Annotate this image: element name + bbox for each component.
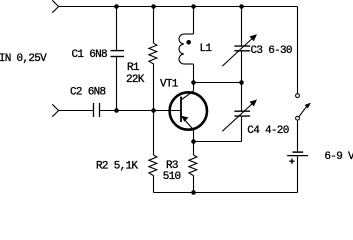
wire emitter to C4 bottom bbox=[194, 141, 242, 143]
label C1 6N8 bbox=[72, 49, 108, 61]
svg-text:L1: L1 bbox=[200, 43, 213, 55]
label C2 6N8 bbox=[70, 87, 106, 99]
label 510 bbox=[163, 171, 181, 183]
node dot C3-C4 junction bbox=[239, 80, 244, 85]
wire bottom rail bbox=[154, 192, 298, 194]
svg-text:510: 510 bbox=[163, 171, 181, 183]
svg-text:C3 6-30: C3 6-30 bbox=[251, 45, 292, 57]
node dot top C1 bbox=[114, 4, 119, 9]
node dot R1-R2-base junction bbox=[151, 108, 156, 113]
node dot C1-C2 junction bbox=[114, 108, 119, 113]
svg-text:C2 6N8: C2 6N8 bbox=[70, 87, 106, 99]
svg-text:C4 4-20: C4 4-20 bbox=[247, 125, 288, 137]
svg-text:R2 5,1K: R2 5,1K bbox=[96, 161, 138, 173]
capacitor C3 variable bbox=[222, 7, 257, 83]
L1 winding dot bbox=[186, 40, 191, 45]
label C3 6-30 bbox=[251, 45, 292, 57]
label C4 4-20 bbox=[247, 125, 288, 137]
resistor R2 bbox=[149, 111, 157, 193]
battery GB1 bbox=[287, 152, 308, 192]
label IN 0,25V bbox=[0, 53, 47, 65]
label R3 bbox=[166, 160, 178, 172]
transistor VT1 bbox=[170, 91, 207, 142]
label L1 bbox=[200, 43, 213, 55]
resistor R1 bbox=[149, 7, 157, 111]
svg-text:R1: R1 bbox=[127, 62, 140, 74]
switch SA1 bbox=[296, 7, 311, 152]
label VT1 bbox=[160, 79, 179, 91]
wire collector rail bbox=[194, 82, 242, 84]
node dot emitter junction bbox=[191, 139, 196, 144]
input terminal bottom bbox=[52, 104, 58, 116]
svg-text:C1 6N8: C1 6N8 bbox=[72, 49, 108, 61]
wire C2 to base bbox=[100, 110, 181, 112]
node dot top L1 bbox=[191, 4, 196, 9]
node dot collector junction bbox=[191, 80, 196, 85]
svg-text:22K: 22K bbox=[126, 74, 145, 86]
svg-text:VT1: VT1 bbox=[160, 79, 179, 91]
label R1 bbox=[127, 62, 140, 74]
capacitor C2 bbox=[94, 103, 100, 117]
capacitor C1 bbox=[111, 7, 125, 111]
node dot top C3 bbox=[239, 4, 244, 9]
node dot bottom R3 bbox=[191, 190, 196, 195]
svg-text:6-9 V: 6-9 V bbox=[324, 151, 353, 163]
wire input to C2 bbox=[59, 110, 93, 112]
wire top rail bbox=[59, 6, 298, 8]
node dot top R1 bbox=[151, 4, 156, 9]
label 22K bbox=[126, 74, 145, 86]
label R2 5,1K bbox=[96, 161, 138, 173]
svg-text:IN 0,25V: IN 0,25V bbox=[0, 53, 47, 65]
label 6-9 V bbox=[324, 151, 353, 163]
input terminal top bbox=[52, 0, 58, 12]
inductor L1 bbox=[179, 7, 194, 91]
resistor R3 bbox=[189, 142, 197, 193]
capacitor C4 variable bbox=[222, 83, 257, 142]
